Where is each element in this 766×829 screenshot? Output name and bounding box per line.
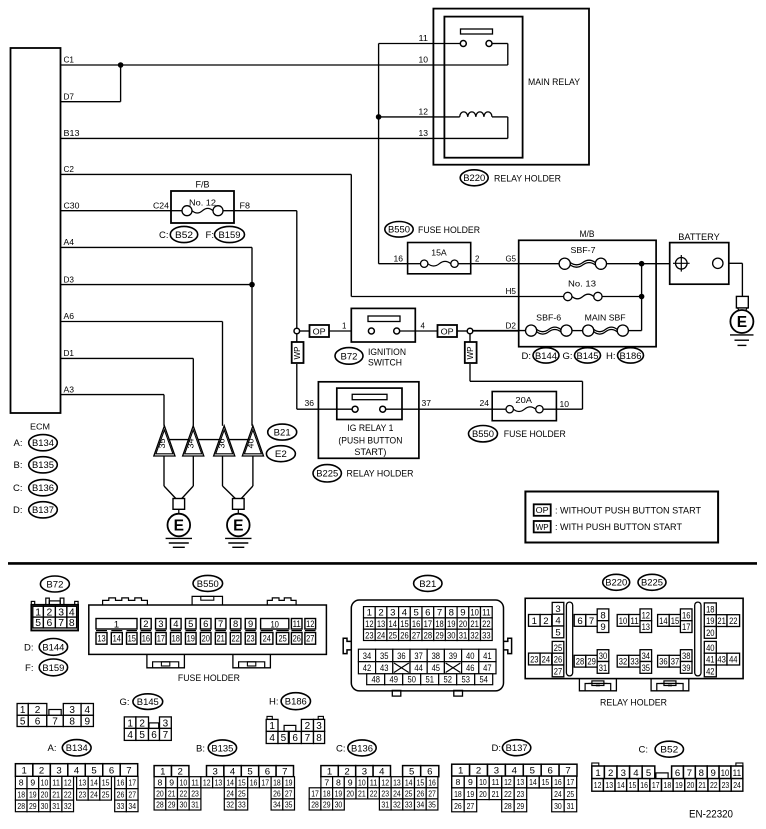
- svg-text:15: 15: [417, 777, 425, 787]
- svg-text:18: 18: [435, 619, 443, 630]
- svg-text:22: 22: [370, 788, 378, 798]
- svg-text:B135: B135: [32, 460, 54, 471]
- svg-text:34: 34: [186, 438, 196, 448]
- svg-text:EN-22320: EN-22320: [689, 809, 733, 821]
- svg-text:19: 19: [335, 788, 343, 798]
- svg-text:4: 4: [555, 616, 561, 627]
- svg-text:12: 12: [203, 777, 211, 787]
- svg-text:D:: D:: [24, 642, 34, 653]
- svg-text:29: 29: [587, 657, 595, 668]
- svg-text:33: 33: [238, 800, 246, 810]
- svg-text:8: 8: [449, 608, 454, 619]
- svg-text:37: 37: [671, 657, 679, 668]
- svg-text:28: 28: [311, 800, 319, 810]
- svg-text:35: 35: [642, 663, 650, 674]
- svg-text:B550: B550: [197, 579, 219, 590]
- svg-text:2: 2: [476, 766, 481, 777]
- svg-text:20A: 20A: [515, 396, 532, 405]
- svg-text:21: 21: [52, 790, 60, 800]
- svg-text:B:: B:: [14, 460, 23, 471]
- svg-text:13: 13: [377, 619, 385, 630]
- svg-text:11: 11: [630, 616, 638, 627]
- svg-text:D1: D1: [64, 349, 75, 358]
- svg-text:3: 3: [56, 766, 61, 777]
- svg-text:4: 4: [633, 768, 639, 779]
- svg-text:23: 23: [365, 630, 373, 641]
- svg-text:B13: B13: [64, 129, 81, 138]
- svg-text:B144: B144: [535, 351, 557, 362]
- svg-text:6: 6: [151, 730, 157, 741]
- svg-text:6: 6: [109, 766, 114, 777]
- svg-text:50: 50: [407, 675, 415, 686]
- svg-text:20: 20: [706, 628, 714, 639]
- svg-text:26: 26: [417, 788, 425, 798]
- svg-text:11: 11: [191, 777, 199, 787]
- svg-text:5: 5: [646, 768, 651, 779]
- svg-text:1: 1: [269, 721, 275, 732]
- svg-text:5: 5: [20, 717, 26, 728]
- svg-text:IG RELAY 1: IG RELAY 1: [347, 423, 393, 434]
- svg-text:21: 21: [717, 616, 725, 627]
- svg-text:F:: F:: [206, 230, 214, 241]
- svg-text:17: 17: [682, 622, 690, 633]
- svg-text:OP: OP: [313, 326, 326, 336]
- svg-text:22: 22: [710, 780, 718, 790]
- svg-text:5: 5: [91, 766, 96, 777]
- svg-text:54: 54: [479, 675, 488, 686]
- svg-text:C:: C:: [13, 483, 23, 494]
- svg-text:F/B: F/B: [196, 180, 210, 191]
- svg-text:25: 25: [567, 789, 575, 799]
- svg-text:11: 11: [492, 777, 500, 787]
- svg-text:35: 35: [285, 800, 293, 810]
- svg-text:28: 28: [156, 800, 164, 810]
- svg-text:4: 4: [127, 730, 133, 741]
- svg-text:1: 1: [595, 768, 600, 779]
- svg-text:4: 4: [173, 618, 178, 629]
- svg-text:7: 7: [282, 767, 287, 778]
- svg-text:M/B: M/B: [580, 229, 595, 240]
- svg-text:3: 3: [362, 767, 367, 778]
- svg-text:15: 15: [238, 777, 246, 787]
- svg-text:21: 21: [217, 633, 225, 644]
- svg-text:17: 17: [311, 788, 319, 798]
- svg-text:FUSE HOLDER: FUSE HOLDER: [504, 429, 566, 440]
- svg-text:MAIN RELAY: MAIN RELAY: [528, 77, 581, 88]
- svg-text:43: 43: [380, 663, 388, 674]
- svg-text:3: 3: [555, 604, 560, 615]
- svg-text:26: 26: [117, 790, 125, 800]
- svg-text:31: 31: [599, 663, 607, 674]
- svg-text:7: 7: [163, 730, 169, 741]
- svg-text:4: 4: [512, 766, 518, 777]
- svg-text:(PUSH BUTTON: (PUSH BUTTON: [338, 436, 402, 447]
- svg-text:29: 29: [323, 800, 331, 810]
- svg-text:5: 5: [530, 766, 535, 777]
- svg-text:: WITH PUSH BUTTON START: : WITH PUSH BUTTON START: [555, 522, 682, 532]
- svg-text:28: 28: [576, 657, 584, 668]
- svg-text:19: 19: [467, 789, 475, 799]
- svg-text:B72: B72: [341, 351, 358, 362]
- svg-text:4: 4: [84, 705, 90, 716]
- svg-text:20: 20: [156, 788, 164, 798]
- svg-text:19: 19: [187, 633, 195, 644]
- svg-text:43: 43: [717, 655, 725, 666]
- svg-text:5: 5: [555, 627, 560, 638]
- svg-text:13: 13: [79, 778, 87, 788]
- svg-text:12: 12: [381, 777, 389, 787]
- svg-text:C30: C30: [64, 201, 81, 210]
- svg-text:29: 29: [517, 801, 525, 811]
- svg-text:30: 30: [447, 630, 455, 641]
- svg-text:B550: B550: [472, 429, 494, 440]
- svg-text:E: E: [174, 518, 184, 535]
- svg-text:28: 28: [17, 801, 25, 811]
- svg-text:B:: B:: [196, 743, 205, 754]
- svg-text:27: 27: [467, 801, 475, 811]
- svg-text:C:: C:: [639, 745, 649, 756]
- svg-text:7: 7: [687, 768, 692, 779]
- svg-text:1: 1: [342, 321, 346, 330]
- svg-text:22: 22: [482, 619, 490, 630]
- svg-text:7: 7: [126, 766, 131, 777]
- svg-text:OP: OP: [536, 505, 549, 515]
- svg-text:A6: A6: [64, 312, 75, 321]
- svg-text:6: 6: [47, 618, 53, 629]
- svg-text:12: 12: [642, 610, 650, 621]
- svg-text:35: 35: [428, 800, 436, 810]
- svg-text:2: 2: [139, 718, 145, 729]
- svg-text:7: 7: [437, 608, 442, 619]
- svg-text:20: 20: [479, 789, 487, 799]
- svg-text:B135: B135: [211, 743, 233, 754]
- svg-text:C:: C:: [159, 230, 169, 241]
- svg-text:25: 25: [278, 633, 286, 644]
- svg-text:17: 17: [157, 633, 165, 644]
- svg-text:6: 6: [547, 766, 552, 777]
- svg-text:11: 11: [733, 768, 741, 779]
- svg-text:39: 39: [449, 651, 457, 662]
- svg-text:FUSE HOLDER: FUSE HOLDER: [178, 673, 240, 684]
- svg-text:4: 4: [269, 733, 275, 744]
- svg-text:18: 18: [706, 604, 714, 615]
- svg-text:19: 19: [675, 780, 683, 790]
- svg-text:12: 12: [365, 619, 373, 630]
- svg-text:13: 13: [97, 633, 105, 644]
- svg-text:SBF-7: SBF-7: [571, 245, 596, 255]
- svg-text:28: 28: [504, 801, 512, 811]
- svg-text:22: 22: [504, 789, 512, 799]
- svg-text:53: 53: [461, 675, 469, 686]
- svg-text:6: 6: [203, 618, 208, 629]
- svg-text:RELAY HOLDER: RELAY HOLDER: [347, 469, 414, 480]
- svg-text:51: 51: [425, 675, 433, 686]
- svg-text:B225: B225: [641, 578, 663, 589]
- svg-text:B186: B186: [620, 351, 642, 362]
- svg-text:14: 14: [529, 777, 537, 787]
- svg-text:10: 10: [619, 616, 627, 627]
- svg-text:18: 18: [273, 777, 281, 787]
- svg-text:49: 49: [389, 675, 397, 686]
- svg-text:42: 42: [363, 663, 371, 674]
- svg-text:13: 13: [393, 777, 401, 787]
- svg-text:9: 9: [30, 778, 35, 788]
- svg-text:30: 30: [41, 801, 49, 811]
- svg-text:27: 27: [128, 790, 136, 800]
- svg-text:27: 27: [306, 633, 314, 644]
- svg-text:14: 14: [90, 778, 98, 788]
- svg-text:36: 36: [305, 399, 315, 408]
- svg-text:23: 23: [381, 788, 389, 798]
- svg-text:8: 8: [69, 618, 75, 629]
- svg-text:44: 44: [414, 663, 423, 674]
- svg-text:WP: WP: [465, 346, 475, 359]
- svg-text:42: 42: [706, 666, 714, 677]
- svg-text:6: 6: [675, 768, 680, 779]
- svg-text:7: 7: [58, 618, 64, 629]
- svg-text:21: 21: [698, 780, 706, 790]
- svg-text:18: 18: [17, 790, 25, 800]
- svg-text:20: 20: [346, 788, 354, 798]
- svg-text:16: 16: [394, 254, 404, 263]
- svg-text:21: 21: [492, 789, 500, 799]
- svg-text:10: 10: [270, 618, 279, 629]
- svg-text:9: 9: [248, 618, 253, 629]
- svg-text:25: 25: [238, 788, 246, 798]
- svg-text:25: 25: [389, 630, 397, 641]
- svg-text:A3: A3: [64, 385, 75, 394]
- svg-text:E: E: [233, 518, 243, 535]
- svg-text:6: 6: [427, 767, 432, 778]
- svg-text:23: 23: [530, 654, 538, 665]
- svg-text:B52: B52: [175, 230, 193, 241]
- svg-text:B52: B52: [660, 745, 678, 756]
- svg-text:45: 45: [432, 663, 440, 674]
- svg-text:D:: D:: [13, 505, 23, 516]
- svg-text:41: 41: [483, 651, 491, 662]
- svg-text:C24: C24: [153, 201, 170, 210]
- svg-text:5: 5: [413, 608, 418, 619]
- svg-text:C1: C1: [64, 56, 75, 65]
- svg-text:22: 22: [64, 790, 72, 800]
- svg-text:IGNITION: IGNITION: [368, 347, 406, 358]
- svg-text:G:: G:: [119, 697, 129, 708]
- svg-text:38: 38: [682, 651, 690, 662]
- svg-text:D2: D2: [506, 321, 517, 330]
- svg-text:14: 14: [405, 777, 413, 787]
- svg-text:20: 20: [41, 790, 49, 800]
- svg-text:2: 2: [39, 766, 44, 777]
- svg-text:31: 31: [567, 801, 575, 811]
- svg-text:G:: G:: [562, 351, 572, 362]
- svg-text:25: 25: [102, 790, 110, 800]
- svg-text:D:: D:: [492, 743, 502, 754]
- svg-text:11: 11: [482, 608, 490, 619]
- svg-text:39: 39: [682, 663, 690, 674]
- svg-text:31: 31: [459, 630, 467, 641]
- svg-text:28: 28: [424, 630, 432, 641]
- svg-text:30: 30: [599, 651, 607, 662]
- svg-text:12: 12: [504, 777, 512, 787]
- svg-text:11: 11: [370, 777, 378, 787]
- svg-text:20: 20: [687, 780, 695, 790]
- svg-text:8: 8: [19, 778, 24, 788]
- svg-text:A4: A4: [64, 238, 75, 247]
- svg-text:29: 29: [435, 630, 443, 641]
- svg-text:20: 20: [459, 619, 467, 630]
- svg-text:36: 36: [659, 657, 667, 668]
- svg-text:9: 9: [460, 608, 465, 619]
- svg-text:24: 24: [263, 633, 271, 644]
- svg-text:2: 2: [178, 767, 183, 778]
- svg-text:10: 10: [419, 56, 429, 65]
- svg-text:3: 3: [163, 718, 169, 729]
- svg-text:35: 35: [380, 651, 388, 662]
- svg-text:20: 20: [202, 633, 210, 644]
- svg-text:30: 30: [554, 801, 562, 811]
- svg-text:B186: B186: [285, 697, 307, 708]
- svg-text:16: 16: [117, 778, 125, 788]
- svg-text:15A: 15A: [431, 249, 447, 258]
- svg-text:4: 4: [230, 767, 236, 778]
- svg-text:33: 33: [630, 657, 638, 668]
- svg-text:37: 37: [414, 651, 422, 662]
- svg-text:29: 29: [168, 800, 176, 810]
- svg-text:14: 14: [389, 619, 398, 630]
- svg-text:13: 13: [419, 129, 429, 138]
- svg-text:23: 23: [517, 789, 525, 799]
- svg-text:24: 24: [733, 780, 741, 790]
- svg-text:27: 27: [554, 666, 562, 677]
- svg-text:B21: B21: [419, 579, 436, 590]
- svg-text:26: 26: [400, 630, 408, 641]
- svg-text:18: 18: [323, 788, 331, 798]
- svg-text:26: 26: [554, 655, 562, 666]
- svg-text:B21: B21: [274, 428, 291, 439]
- svg-text:MAIN SBF: MAIN SBF: [585, 312, 626, 322]
- svg-text:2: 2: [378, 608, 383, 619]
- svg-text:1: 1: [327, 767, 332, 778]
- svg-text:21: 21: [358, 788, 366, 798]
- svg-text:B159: B159: [42, 663, 64, 674]
- svg-text:5: 5: [281, 733, 287, 744]
- svg-text:27: 27: [428, 788, 436, 798]
- svg-text:H:: H:: [606, 351, 616, 362]
- svg-text:18: 18: [664, 780, 672, 790]
- svg-text:1: 1: [20, 705, 26, 716]
- svg-text:1: 1: [114, 618, 119, 629]
- svg-text:B134: B134: [66, 743, 88, 754]
- svg-text:18: 18: [172, 633, 180, 644]
- svg-text:25: 25: [554, 643, 562, 654]
- svg-text:9: 9: [169, 777, 174, 787]
- svg-text:2: 2: [143, 618, 148, 629]
- svg-text:START): START): [354, 447, 386, 458]
- svg-text:1: 1: [160, 767, 165, 778]
- svg-text:23: 23: [79, 790, 87, 800]
- svg-text:24: 24: [480, 399, 490, 408]
- svg-text:24: 24: [542, 654, 551, 665]
- svg-text:FUSE HOLDER: FUSE HOLDER: [418, 225, 480, 236]
- svg-text:C:: C:: [336, 743, 346, 754]
- svg-text:2: 2: [344, 767, 349, 778]
- svg-text:23: 23: [246, 633, 254, 644]
- svg-text:4: 4: [421, 321, 426, 330]
- svg-text:RELAY HOLDER: RELAY HOLDER: [600, 698, 667, 709]
- svg-text:16: 16: [554, 777, 562, 787]
- svg-text:10: 10: [358, 777, 366, 787]
- svg-text:5: 5: [247, 767, 252, 778]
- svg-text:24: 24: [377, 630, 386, 641]
- svg-text:32: 32: [470, 630, 478, 641]
- svg-text:52: 52: [443, 675, 451, 686]
- svg-text:9: 9: [468, 777, 473, 787]
- svg-text:34: 34: [128, 801, 136, 811]
- svg-text:19: 19: [706, 616, 714, 627]
- svg-text:3: 3: [158, 618, 163, 629]
- svg-text:40: 40: [245, 438, 255, 448]
- svg-text:6: 6: [577, 616, 582, 627]
- svg-text:34: 34: [273, 800, 281, 810]
- svg-text:24: 24: [90, 790, 98, 800]
- svg-text:9: 9: [600, 622, 605, 633]
- svg-text:13: 13: [642, 622, 650, 633]
- svg-text:38: 38: [432, 651, 440, 662]
- svg-text:15: 15: [102, 778, 110, 788]
- svg-text:40: 40: [706, 643, 714, 654]
- svg-text:34: 34: [363, 651, 372, 662]
- svg-text:E2: E2: [275, 449, 287, 460]
- svg-text:3: 3: [69, 705, 75, 716]
- svg-text:SWITCH: SWITCH: [368, 357, 402, 368]
- svg-text:41: 41: [706, 655, 714, 666]
- svg-text:17: 17: [652, 780, 660, 790]
- svg-text:SBF-6: SBF-6: [536, 312, 561, 322]
- svg-text:7: 7: [305, 733, 311, 744]
- svg-text:B137: B137: [506, 743, 528, 754]
- svg-text:23: 23: [191, 788, 199, 798]
- svg-text:37: 37: [422, 399, 432, 408]
- svg-text:5: 5: [409, 767, 414, 778]
- svg-text:3: 3: [621, 768, 626, 779]
- svg-text:29: 29: [29, 801, 37, 811]
- svg-text:3: 3: [316, 721, 322, 732]
- svg-text:B136: B136: [32, 483, 54, 494]
- svg-text:14: 14: [659, 616, 668, 627]
- svg-text:B144: B144: [42, 642, 64, 653]
- svg-text:B220: B220: [605, 578, 627, 589]
- svg-text:2: 2: [608, 768, 613, 779]
- svg-text:No. 12: No. 12: [189, 197, 216, 207]
- svg-text:14: 14: [617, 780, 625, 790]
- svg-text:1: 1: [21, 766, 26, 777]
- svg-text:B550: B550: [388, 225, 410, 236]
- svg-text:32: 32: [619, 657, 627, 668]
- svg-text:C2: C2: [64, 165, 75, 174]
- svg-text:10: 10: [470, 608, 478, 619]
- svg-text:13: 13: [215, 777, 223, 787]
- svg-text:24: 24: [393, 788, 401, 798]
- svg-text:10: 10: [479, 777, 487, 787]
- svg-text:B225: B225: [316, 469, 338, 480]
- svg-text:G5: G5: [506, 254, 517, 263]
- svg-text:6: 6: [265, 767, 270, 778]
- svg-text:B220: B220: [463, 173, 485, 184]
- svg-text:3: 3: [390, 608, 395, 619]
- svg-text:27: 27: [412, 630, 420, 641]
- svg-text:RELAY HOLDER: RELAY HOLDER: [494, 173, 561, 184]
- svg-text:48: 48: [371, 675, 379, 686]
